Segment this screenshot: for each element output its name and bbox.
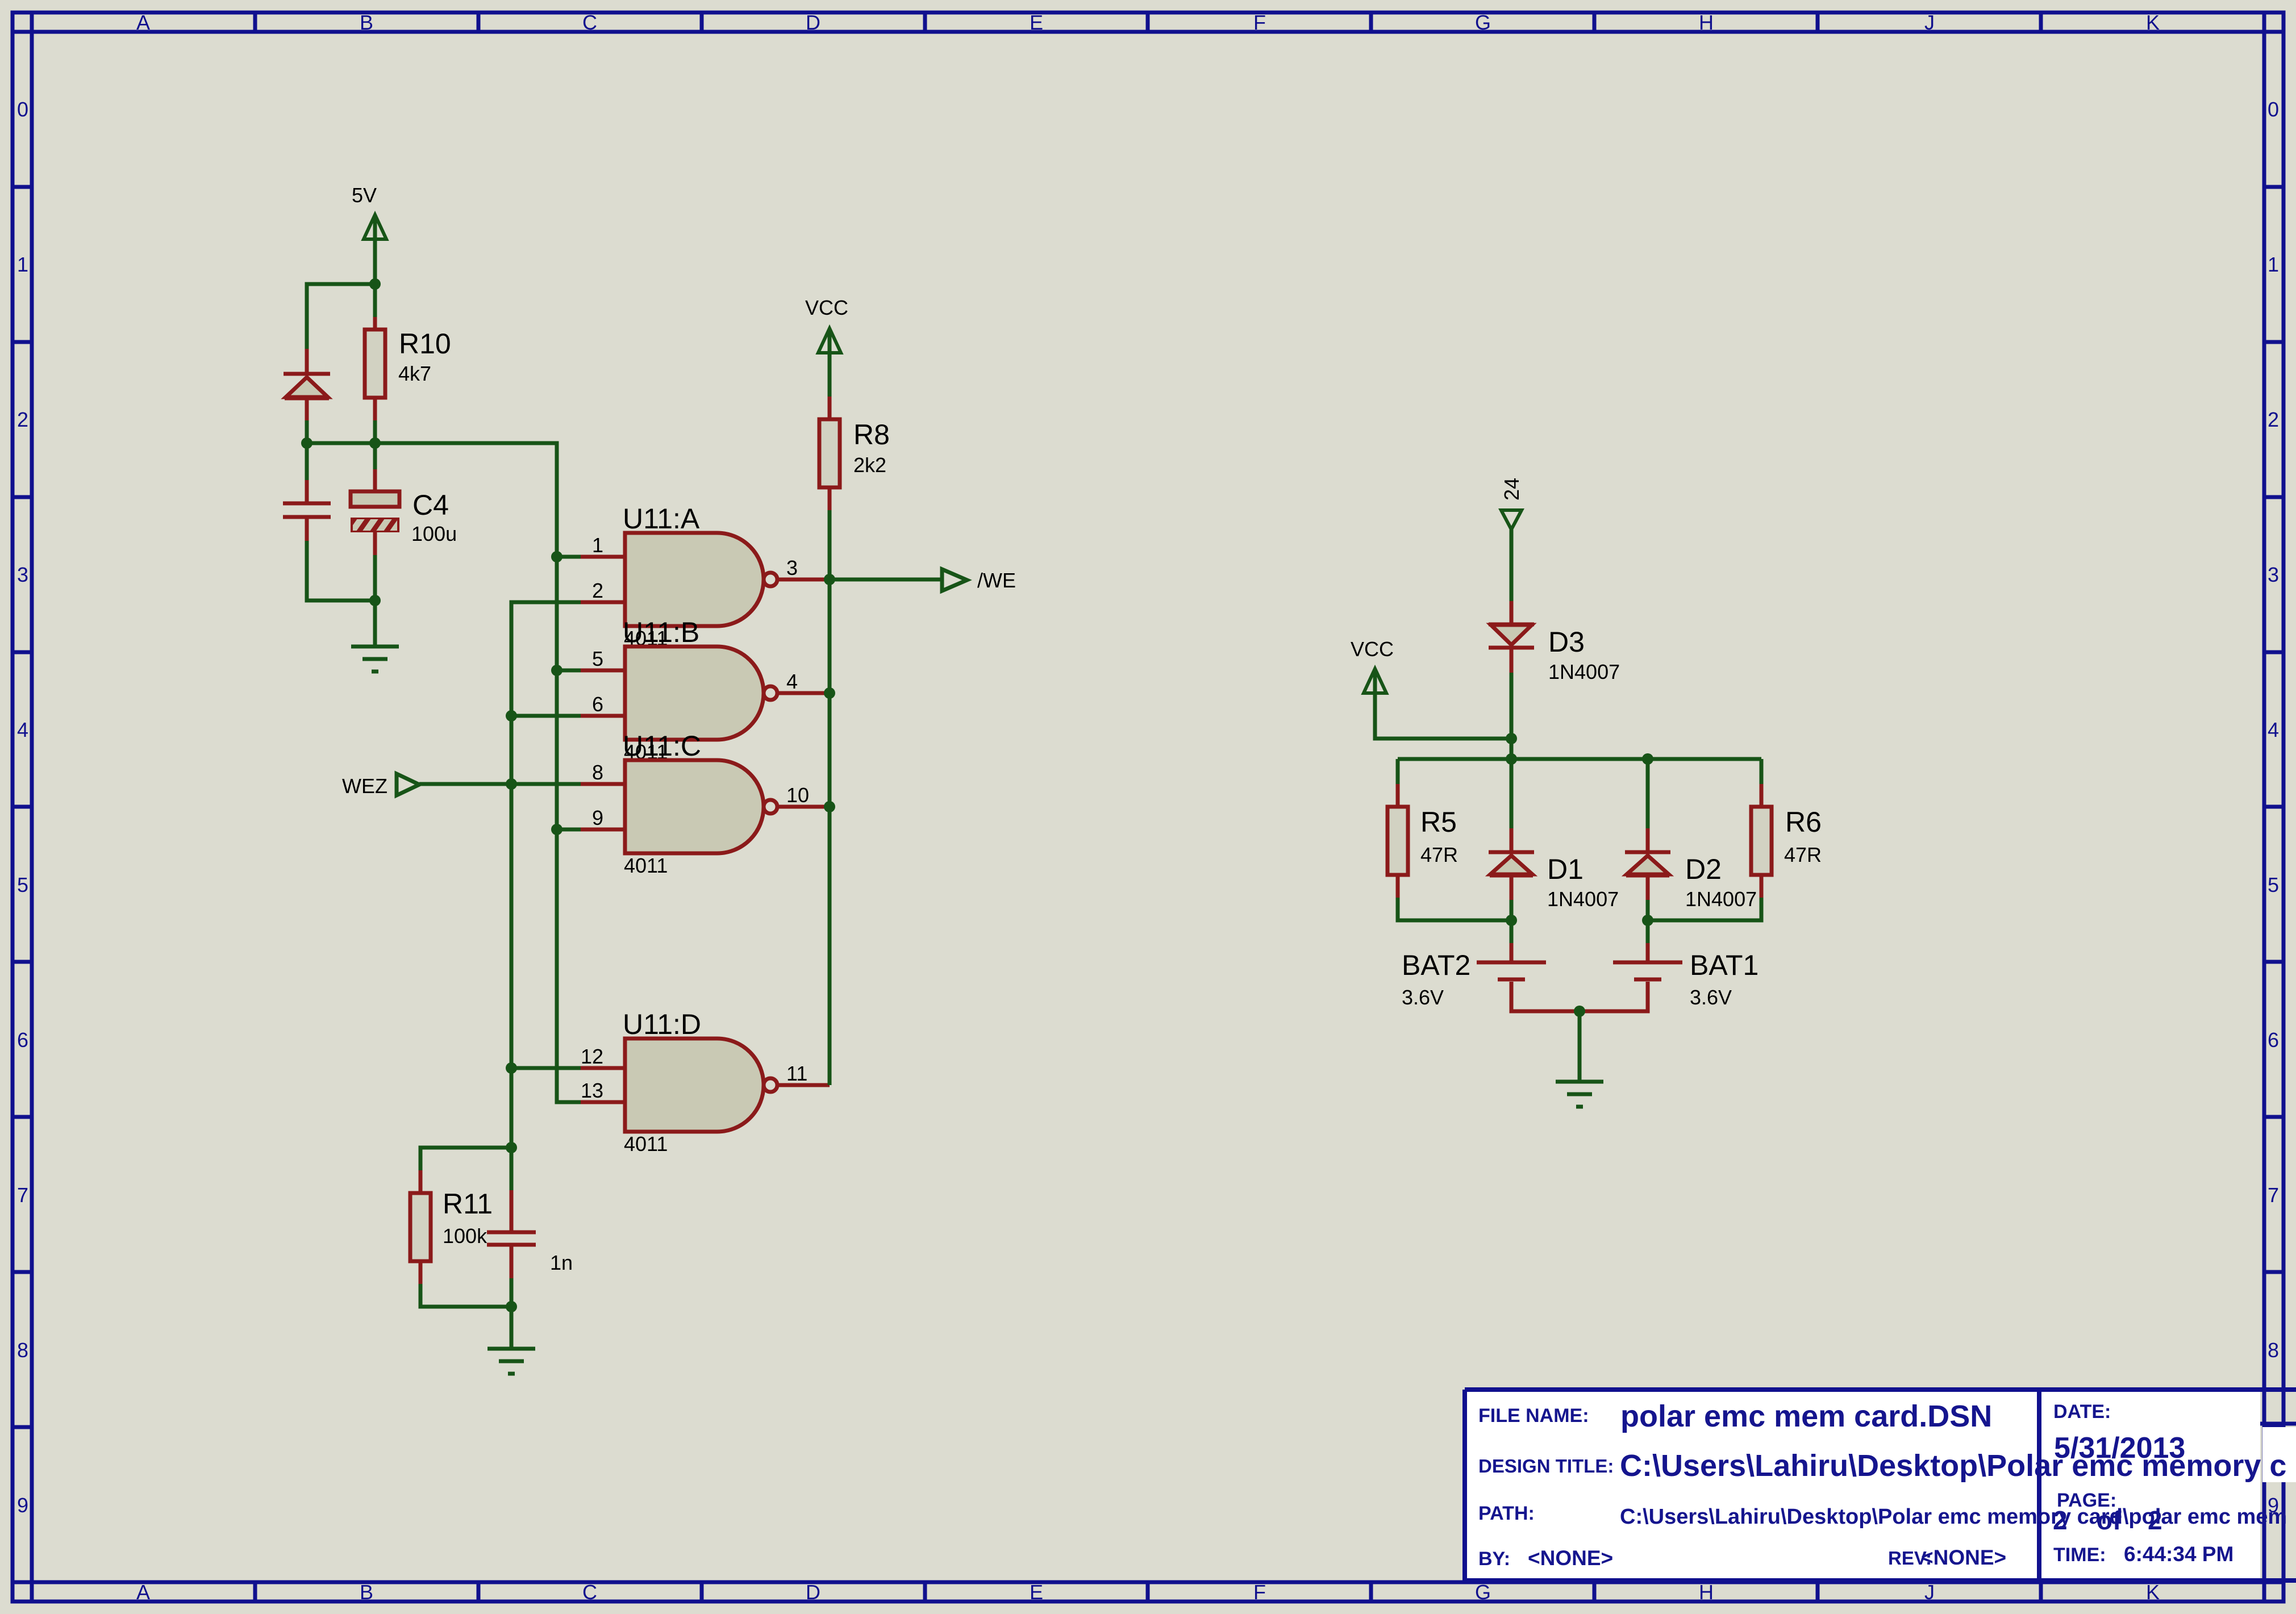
svg-text:C4: C4 [412,489,449,521]
junction ground node 2 [506,1301,517,1312]
wire battery node row left [1398,919,1511,923]
wire pin12 link [511,1066,581,1070]
svg-text:G: G [1475,11,1491,34]
wire rail to D2 [1646,759,1650,831]
wire R6 to battery node [1648,898,1761,920]
wire R5 to battery node [1398,898,1511,920]
input terminal pin 24 [1501,510,1522,529]
svg-text:2: 2 [2148,1505,2162,1535]
svg-text:C: C [582,11,597,34]
junction ground node [369,595,381,606]
svg-text:4: 4 [2268,718,2279,741]
svg-text:4k7: 4k7 [398,362,431,385]
wire node row [307,443,581,1102]
svg-text:100u: 100u [411,522,457,545]
wire 5V node to R10 [373,284,377,319]
resistor R5 [1387,784,1408,899]
svg-text:<NONE>: <NONE> [1528,1546,1613,1570]
wire 5V node to diode [307,284,375,351]
op-amp U11:C NAND gate 4011 [581,760,830,853]
wire D2 to battery node [1646,900,1650,920]
svg-text:4: 4 [17,718,28,741]
wire rail [1398,757,1761,761]
wire pin9 link [557,828,581,832]
svg-text:DESIGN TITLE:: DESIGN TITLE: [1478,1455,1614,1477]
wire VCC to D3 node [1375,694,1511,739]
svg-text:D3: D3 [1548,626,1585,658]
svg-text:/WE: /WE [977,569,1016,592]
svg-text:1N4007: 1N4007 [1547,887,1619,911]
junction battery node BAT2 [1506,915,1517,926]
power terminal 5V [364,215,386,284]
wire diode to node row [305,420,309,443]
wire to /WE terminal [830,578,942,582]
svg-text:DATE:: DATE: [2053,1401,2111,1423]
svg-text:BAT2: BAT2 [1402,949,1470,981]
wire to ground [1578,1011,1582,1082]
svg-text:0: 0 [2268,98,2279,121]
wire to ground [373,600,377,647]
svg-text:1: 1 [17,253,28,276]
wire 1n to ground node [510,1278,514,1307]
svg-text:VCC: VCC [805,296,848,319]
svg-text:R10: R10 [399,328,451,360]
svg-text:10: 10 [786,783,809,807]
op-amp U11:D NAND gate 4011 [581,1039,830,1132]
svg-text:3: 3 [786,556,798,579]
capacitor C4 [349,469,406,556]
svg-text:E: E [1030,1580,1043,1604]
wire pin5 link [557,669,581,673]
wire R10 to node row [373,420,377,443]
wire 24 to D3 [1510,529,1514,603]
battery BAT1 [1580,920,1682,1011]
svg-text:6: 6 [2268,1028,2279,1052]
capacitor (unlabeled) [283,480,331,542]
svg-text:5: 5 [2268,873,2279,896]
junction rail node D1 [1506,753,1517,765]
wire WEZ to pin8 [419,782,581,786]
junction pin9 [551,824,562,835]
power terminal VCC right [1364,669,1386,704]
junction R11 node [506,1142,517,1153]
svg-text:1n: 1n [550,1251,573,1274]
svg-text:6:44:34 PM: 6:44:34 PM [2124,1542,2234,1566]
wire node row to left capacitor [305,443,309,482]
title block frame [1465,1390,2296,1580]
junction pin12 [506,1062,517,1074]
svg-text:7: 7 [17,1183,28,1207]
svg-text:5: 5 [17,873,28,896]
svg-text:TIME:: TIME: [2053,1544,2106,1566]
wire pin6 link [511,714,581,718]
svg-text:K: K [2146,1580,2160,1604]
svg-text:1N4007: 1N4007 [1685,887,1757,911]
wire rail to R6 [1760,759,1764,785]
wire pin2 branch bus [511,602,581,1148]
wire node row to C4 [373,443,377,472]
svg-text:<NONE>: <NONE> [1921,1546,2006,1569]
wire capacitor to ground node [307,541,375,600]
junction pin6 [506,710,517,721]
svg-text:8: 8 [592,761,603,784]
svg-text:U11:D: U11:D [623,1008,701,1040]
svg-text:D1: D1 [1547,853,1584,885]
svg-text:C:\Users\Lahiru\Desktop\Polar: C:\Users\Lahiru\Desktop\Polar emc memory… [1620,1449,2286,1483]
svg-text:3: 3 [17,563,28,586]
svg-text:8: 8 [17,1338,28,1362]
svg-text:3: 3 [2268,563,2279,586]
svg-text:WEZ: WEZ [342,774,387,798]
svg-text:R8: R8 [853,419,890,451]
svg-text:5/31/2013: 5/31/2013 [2054,1432,2185,1465]
wire pin1 link [557,555,581,559]
svg-text:D: D [806,11,820,34]
op-amp U11:A NAND gate 4011 [581,533,830,626]
svg-text:1: 1 [2268,253,2279,276]
wire D3 to rail [1510,673,1514,831]
junction pin3 [824,574,835,585]
wire D1 to battery node [1510,900,1514,920]
svg-text:9: 9 [17,1494,28,1517]
title block date cell tick [2260,1422,2296,1426]
diode D (unlabeled zener clamp) [284,349,330,422]
svg-text:B: B [360,1580,373,1604]
svg-text:BAT1: BAT1 [1690,949,1759,981]
svg-text:9: 9 [592,806,603,829]
wire R11 branch top [420,1148,511,1171]
svg-text:A: A [136,1580,150,1604]
svg-text:B: B [360,11,373,34]
diode D3 [1489,601,1534,673]
wire to ground [510,1307,514,1349]
border column letters top [136,11,2160,34]
svg-text:F: F [1253,11,1266,34]
border row numbers left [17,98,28,1517]
junction VCC node [1506,733,1517,744]
svg-text:H: H [1699,11,1714,34]
power terminal VCC [818,328,841,398]
svg-text:0: 0 [17,98,28,121]
svg-text:2: 2 [592,579,603,602]
svg-text:8: 8 [2268,1338,2279,1362]
svg-text:11: 11 [786,1062,807,1085]
svg-text:U11:B: U11:B [623,616,699,648]
svg-text:K: K [2146,11,2160,34]
svg-text:A: A [136,11,150,34]
value page 2 of 2 [2053,1505,2162,1535]
svg-text:R11: R11 [443,1188,493,1220]
battery BAT2 [1477,920,1580,1011]
resistor R10 [365,317,385,422]
svg-text:100k: 100k [443,1224,487,1248]
svg-text:2: 2 [2268,408,2279,431]
svg-text:H: H [1699,1580,1714,1604]
svg-text:47R: 47R [1420,843,1458,866]
svg-text:4011: 4011 [624,1132,668,1156]
junction [301,437,312,449]
svg-text:13: 13 [581,1079,603,1102]
border column letters bottom [136,1580,2160,1604]
op-amp U11:B NAND gate 4011 [581,647,830,740]
svg-text:2: 2 [2053,1505,2068,1535]
wire rail to R5 [1396,759,1400,785]
ground [487,1349,535,1374]
svg-text:6: 6 [592,693,603,716]
svg-text:D: D [806,1580,820,1604]
junction pin5 [551,665,562,676]
junction [369,437,381,449]
title block white panel [1465,1390,2260,1580]
svg-text:3.6V: 3.6V [1402,986,1444,1009]
svg-text:U11:A: U11:A [623,503,700,535]
svg-text:D2: D2 [1685,853,1722,885]
svg-text:C:\Users\Lahiru\Desktop\Polar: C:\Users\Lahiru\Desktop\Polar emc memory… [1620,1505,2287,1529]
svg-text:G: G [1475,1580,1491,1604]
svg-text:4: 4 [786,670,798,693]
output terminal /WE [942,569,967,591]
junction battery common [1574,1006,1585,1017]
junction rail node D2 [1642,753,1653,765]
diode D1 [1489,828,1534,900]
wire bus to capacitor 1n [510,1148,514,1192]
junction pin1 [551,551,562,562]
svg-text:1: 1 [592,533,603,557]
wire C4 to ground node [373,555,377,600]
input terminal WEZ [397,774,419,795]
svg-text:6: 6 [17,1028,28,1052]
svg-text:R6: R6 [1785,806,1822,838]
junction battery node BAT1 [1642,915,1653,926]
svg-text:47R: 47R [1784,843,1822,866]
svg-text:5V: 5V [352,183,377,207]
svg-text:E: E [1030,11,1043,34]
svg-text:5: 5 [592,647,603,670]
junction pin4 [824,687,835,699]
svg-text:PATH:: PATH: [1478,1503,1535,1524]
svg-text:of: of [2097,1505,2122,1535]
svg-text:4011: 4011 [624,854,668,877]
wire R11 bottom [420,1284,511,1307]
junction WEZ bus [506,778,517,790]
svg-text:3.6V: 3.6V [1690,986,1732,1009]
svg-text:J: J [1924,11,1935,34]
svg-text:1N4007: 1N4007 [1548,660,1620,683]
junction pin10 [824,801,835,812]
resistor R11 [410,1170,431,1285]
svg-text:FILE NAME:: FILE NAME: [1478,1405,1589,1427]
svg-text:polar emc mem card.DSN: polar emc mem card.DSN [1620,1399,1992,1433]
resistor R8 [819,397,840,511]
svg-text:7: 7 [2268,1183,2279,1207]
border row numbers right [2268,98,2279,1517]
resistor R6 [1751,784,1772,899]
svg-text:U11:C: U11:C [623,730,701,762]
svg-text:F: F [1253,1580,1266,1604]
svg-text:2: 2 [17,408,28,431]
svg-text:C: C [582,1580,597,1604]
capacitor 1n [487,1190,536,1279]
svg-text:2k2: 2k2 [853,453,886,477]
ground [1556,1082,1603,1107]
svg-text:VCC: VCC [1351,637,1394,661]
svg-text:12: 12 [581,1045,603,1068]
ground [351,647,399,672]
svg-text:24: 24 [1500,478,1523,501]
diode D2 [1625,828,1670,900]
svg-text:J: J [1924,1580,1935,1604]
svg-text:BY:: BY: [1478,1548,1510,1570]
svg-text:R5: R5 [1420,806,1457,838]
junction 5V node [369,278,381,290]
wire R8 output bus [828,510,832,1085]
title block white overflow patch [2262,1427,2296,1482]
